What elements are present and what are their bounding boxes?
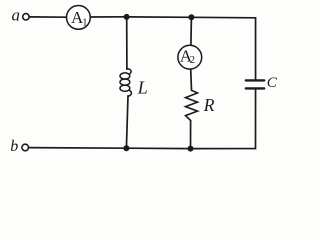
wire A2 branch top bbox=[190, 17, 193, 45]
capacitor C bbox=[246, 80, 264, 88]
node 2 junction bbox=[188, 14, 194, 20]
svg-text:1: 1 bbox=[82, 18, 87, 29]
wire A1 to node 1 bbox=[90, 16, 126, 18]
wire A2 to R bbox=[190, 69, 193, 90]
node 3 junction bbox=[123, 145, 129, 151]
wire a to A1 bbox=[29, 16, 66, 18]
wire capacitor down to bottom-right corner then to node 4 bbox=[191, 88, 256, 148]
ammeter A2 bbox=[178, 45, 202, 69]
wire R to node 4 bbox=[190, 121, 192, 149]
wire b to node 3 bbox=[29, 147, 127, 150]
svg-text:R: R bbox=[203, 95, 215, 115]
wire node 3 to node 4 bbox=[126, 147, 190, 149]
inductor L bbox=[120, 69, 131, 97]
svg-text:2: 2 bbox=[190, 55, 195, 66]
svg-text:a: a bbox=[12, 6, 21, 25]
wire node 2 to top-right corner then down to capacitor bbox=[191, 17, 255, 80]
svg-text:b: b bbox=[10, 138, 18, 155]
node 4 junction bbox=[188, 146, 194, 152]
node 1 junction bbox=[124, 14, 130, 20]
resistor R bbox=[186, 90, 198, 120]
svg-text:C: C bbox=[267, 75, 278, 91]
ammeter A1 bbox=[67, 6, 91, 30]
wire node 1 to node 2 bbox=[127, 16, 192, 18]
terminal b bbox=[22, 144, 29, 151]
terminal a bbox=[23, 14, 29, 20]
wire L branch bottom bbox=[126, 96, 128, 148]
svg-text:L: L bbox=[137, 77, 148, 97]
wire L branch top bbox=[126, 17, 128, 69]
